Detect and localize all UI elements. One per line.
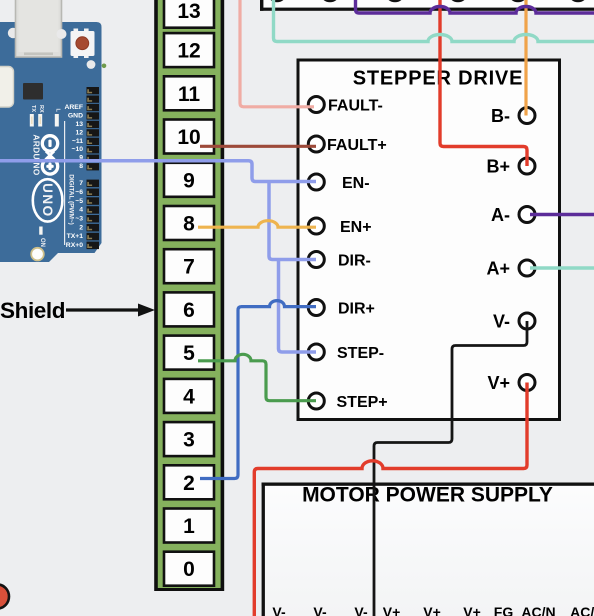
svg-text:5: 5 bbox=[183, 342, 195, 365]
svg-text:12: 12 bbox=[177, 40, 200, 63]
svg-text:12: 12 bbox=[75, 129, 83, 136]
svg-text:AC/N: AC/N bbox=[521, 604, 555, 616]
svg-text:V-: V- bbox=[354, 604, 368, 616]
svg-text:4: 4 bbox=[183, 385, 195, 408]
svg-text:~3: ~3 bbox=[75, 216, 83, 223]
svg-text:10: 10 bbox=[177, 126, 200, 149]
svg-text:7: 7 bbox=[79, 180, 83, 187]
svg-text:EN-: EN- bbox=[342, 175, 370, 192]
svg-text:FG: FG bbox=[494, 604, 514, 616]
svg-text:FAULT+: FAULT+ bbox=[327, 137, 387, 154]
svg-text:MOTOR POWER SUPPLY: MOTOR POWER SUPPLY bbox=[302, 483, 553, 506]
svg-text:13: 13 bbox=[177, 0, 200, 23]
svg-text:V-: V- bbox=[493, 311, 510, 331]
svg-text:STEP-: STEP- bbox=[337, 345, 384, 362]
svg-text:V+: V+ bbox=[487, 373, 510, 393]
svg-text:TX+1: TX+1 bbox=[67, 233, 84, 240]
svg-text:V+: V+ bbox=[423, 604, 441, 616]
svg-text:EN+: EN+ bbox=[340, 219, 372, 236]
svg-text:2: 2 bbox=[183, 472, 195, 495]
svg-text:UNO: UNO bbox=[40, 183, 55, 218]
svg-text:~5: ~5 bbox=[75, 198, 83, 205]
svg-text:~6: ~6 bbox=[75, 189, 83, 196]
svg-text:DIR-: DIR- bbox=[338, 252, 371, 269]
svg-text:4: 4 bbox=[79, 207, 83, 214]
svg-text:DIR+: DIR+ bbox=[338, 300, 375, 317]
svg-text:V+: V+ bbox=[383, 604, 401, 616]
svg-text:11: 11 bbox=[178, 83, 201, 106]
svg-text:DIGITAL (PWM~): DIGITAL (PWM~) bbox=[68, 174, 75, 225]
svg-text:STEP+: STEP+ bbox=[337, 394, 388, 411]
svg-text:2: 2 bbox=[79, 224, 83, 231]
svg-text:TX: TX bbox=[30, 105, 36, 112]
svg-text:GND: GND bbox=[68, 112, 83, 119]
svg-text:B-: B- bbox=[491, 106, 510, 126]
svg-text:RX: RX bbox=[38, 105, 44, 113]
svg-text:9: 9 bbox=[183, 169, 195, 192]
svg-text:RX+0: RX+0 bbox=[66, 242, 83, 249]
svg-text:ON: ON bbox=[39, 238, 45, 247]
svg-text:8: 8 bbox=[183, 213, 195, 236]
svg-text:V-: V- bbox=[313, 604, 327, 616]
svg-text:~10: ~10 bbox=[71, 146, 83, 153]
svg-text:Shield: Shield bbox=[0, 298, 65, 323]
svg-text:~11: ~11 bbox=[72, 138, 83, 145]
svg-text:8: 8 bbox=[79, 163, 83, 170]
svg-text:A-: A- bbox=[491, 205, 510, 225]
svg-text:AREF: AREF bbox=[64, 104, 83, 111]
svg-text:ARDUINO: ARDUINO bbox=[32, 134, 42, 175]
svg-text:FAULT-: FAULT- bbox=[328, 97, 383, 114]
svg-text:3: 3 bbox=[183, 429, 195, 452]
svg-text:6: 6 bbox=[183, 299, 195, 322]
svg-text:STEPPER DRIVE: STEPPER DRIVE bbox=[353, 68, 523, 90]
svg-text:B+: B+ bbox=[486, 156, 510, 176]
svg-text:V+: V+ bbox=[463, 604, 481, 616]
svg-text:13: 13 bbox=[75, 121, 83, 128]
svg-text:AC/L: AC/L bbox=[570, 604, 594, 616]
svg-text:0: 0 bbox=[183, 558, 195, 581]
svg-text:7: 7 bbox=[183, 256, 195, 279]
svg-text:A+: A+ bbox=[486, 258, 510, 278]
svg-text:V-: V- bbox=[272, 604, 286, 616]
svg-text:1: 1 bbox=[183, 515, 195, 538]
